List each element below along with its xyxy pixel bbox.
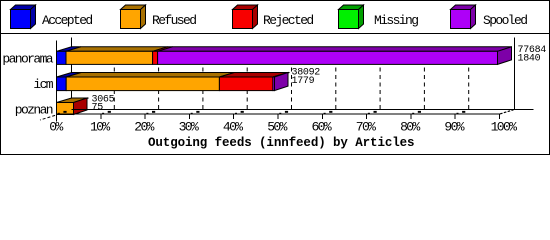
svg-text:80%: 80%	[400, 120, 420, 135]
svg-text:1779: 1779	[292, 76, 315, 87]
svg-text:Refused: Refused	[152, 13, 196, 28]
svg-text:100%: 100%	[491, 120, 518, 135]
svg-text:Missing: Missing	[374, 13, 418, 28]
svg-text:90%: 90%	[444, 120, 464, 135]
svg-text:60%: 60%	[311, 120, 331, 135]
svg-text:Rejected: Rejected	[263, 13, 313, 28]
svg-text:Accepted: Accepted	[42, 13, 92, 28]
svg-text:20%: 20%	[134, 120, 154, 135]
svg-text:75: 75	[92, 103, 104, 114]
svg-text:30%: 30%	[179, 120, 199, 135]
svg-text:panorama: panorama	[2, 52, 53, 67]
svg-text:50%: 50%	[267, 120, 287, 135]
svg-text:40%: 40%	[223, 120, 243, 135]
svg-text:poznan: poznan	[15, 103, 53, 118]
svg-text:Spooled: Spooled	[483, 13, 527, 28]
svg-text:0%: 0%	[49, 120, 63, 135]
svg-text:Outgoing feeds (innfeed) by Ar: Outgoing feeds (innfeed) by Articles	[148, 136, 414, 150]
svg-text:icm: icm	[33, 77, 53, 92]
svg-text:70%: 70%	[356, 120, 376, 135]
svg-text:10%: 10%	[90, 120, 110, 135]
svg-text:1840: 1840	[518, 54, 541, 65]
